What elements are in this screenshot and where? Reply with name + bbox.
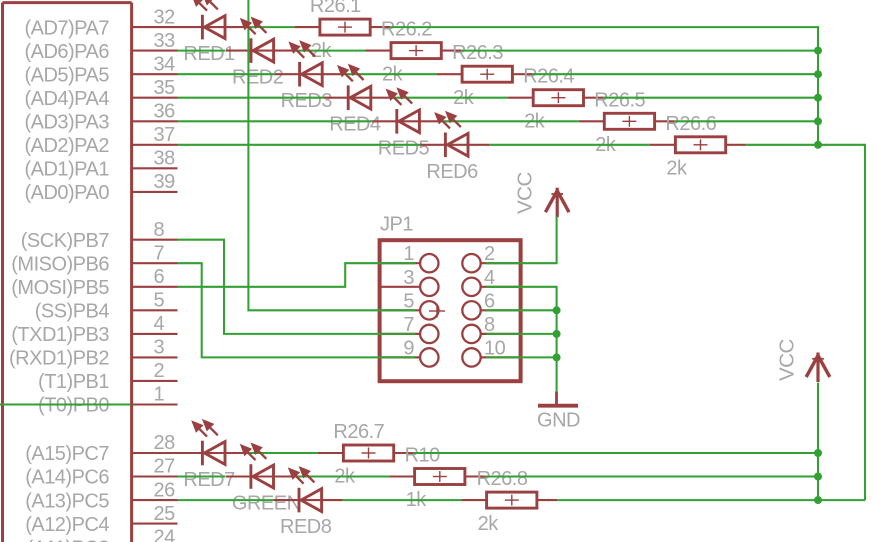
svg-text:RED1: RED1 <box>183 43 235 65</box>
wire <box>178 499 275 501</box>
svg-text:R26.3: R26.3 <box>452 42 503 64</box>
wire <box>486 356 556 358</box>
svg-text:37: 37 <box>154 124 176 146</box>
svg-text:RED4: RED4 <box>329 114 381 136</box>
svg-text:RED2: RED2 <box>232 67 284 89</box>
resistor R26.4 2k <box>508 66 604 133</box>
wire <box>178 263 416 357</box>
JP1 pin 8 <box>462 314 518 343</box>
wire <box>178 263 416 287</box>
pin 28 (A15)PC7 <box>25 432 177 465</box>
junction <box>814 117 822 125</box>
svg-text:(AD3)PA3: (AD3)PA3 <box>24 112 109 134</box>
junction <box>553 330 561 338</box>
svg-text:(AD6)PA6: (AD6)PA6 <box>24 41 109 63</box>
LED GREEN (body) <box>226 464 301 514</box>
svg-text:2: 2 <box>484 243 495 265</box>
pin 33 (AD6)PA6 <box>24 30 177 63</box>
svg-text:28: 28 <box>154 432 176 454</box>
wire <box>178 144 421 146</box>
svg-text:3: 3 <box>154 337 165 359</box>
svg-text:(AD7)PA7: (AD7)PA7 <box>24 17 109 39</box>
wire <box>486 216 556 263</box>
pin 3 (RXD1)PB2 <box>9 337 177 370</box>
pin 6 (MOSI)PB5 <box>11 266 177 299</box>
svg-text:8: 8 <box>154 219 165 241</box>
wire <box>533 73 819 75</box>
svg-text:RED8: RED8 <box>280 516 332 538</box>
connector JP1 <box>380 214 521 382</box>
wire <box>817 383 819 501</box>
resistor R10 1k <box>389 445 485 512</box>
wire <box>557 499 865 501</box>
svg-text:GREEN: GREEN <box>232 493 301 515</box>
wire <box>343 499 462 501</box>
svg-text:R26.2: R26.2 <box>381 19 432 41</box>
LED RED7 emission arrows <box>193 420 218 436</box>
ground symbol GND <box>537 391 580 431</box>
junction <box>814 449 822 457</box>
svg-text:(TXD1)PB3: (TXD1)PB3 <box>11 324 109 346</box>
svg-text:RED6: RED6 <box>426 161 478 183</box>
LED RED6 (body) <box>420 133 489 183</box>
svg-text:(A13)PC5: (A13)PC5 <box>25 490 109 512</box>
svg-text:R26.1: R26.1 <box>310 0 361 17</box>
pin 36 (AD3)PA3 <box>24 101 177 134</box>
junction <box>814 70 822 78</box>
svg-text:39: 39 <box>154 171 176 193</box>
svg-text:33: 33 <box>154 30 176 52</box>
junction <box>553 353 561 361</box>
wire <box>392 97 508 99</box>
svg-text:R26.4: R26.4 <box>523 66 574 88</box>
LED RED5 (body) <box>372 109 441 159</box>
svg-text:(A14)PC6: (A14)PC6 <box>25 467 109 489</box>
power symbol VCC (middle) <box>513 172 569 218</box>
svg-text:VCC: VCC <box>776 339 799 381</box>
wire <box>486 333 556 335</box>
svg-text:1: 1 <box>403 243 414 265</box>
junction <box>814 141 822 149</box>
wire <box>675 120 818 122</box>
LED RED2 (body) <box>226 38 295 88</box>
LED RED8 (body) <box>274 488 343 538</box>
wire <box>486 309 556 311</box>
wire <box>248 0 415 310</box>
wire <box>246 26 294 28</box>
IC IC1 (partial body) <box>3 3 132 542</box>
svg-text:26: 26 <box>154 479 176 501</box>
wire <box>489 144 650 146</box>
JP1 pin 7 <box>382 314 439 343</box>
svg-text:2k: 2k <box>666 158 688 180</box>
wire <box>178 120 372 122</box>
svg-text:4: 4 <box>484 267 495 289</box>
pin 8 (SCK)PB7 <box>21 219 178 252</box>
LED RED6 emission arrows <box>436 112 461 128</box>
LED RED3 (body) <box>275 62 344 112</box>
svg-text:6: 6 <box>154 266 165 288</box>
svg-text:R26.7: R26.7 <box>333 421 384 443</box>
JP1 pin 4 <box>462 267 518 296</box>
LED RED3 emission arrows <box>290 42 315 58</box>
svg-text:4: 4 <box>154 313 165 335</box>
svg-text:GND: GND <box>537 410 580 432</box>
wire <box>178 73 275 75</box>
svg-text:JP1: JP1 <box>380 214 413 236</box>
svg-text:(AD4)PA4: (AD4)PA4 <box>24 88 109 110</box>
svg-text:1: 1 <box>154 384 165 406</box>
JP1 pin 5 <box>382 290 439 319</box>
svg-text:RED7: RED7 <box>183 469 235 491</box>
LED RED8 emission arrows <box>289 468 314 484</box>
junction <box>814 47 822 55</box>
svg-text:(MISO)PB6: (MISO)PB6 <box>11 253 109 275</box>
LED RED4 (body) <box>323 85 392 135</box>
junction <box>553 306 561 314</box>
svg-text:36: 36 <box>154 101 176 123</box>
pin 5 (SS)PB4 <box>35 290 178 323</box>
svg-text:35: 35 <box>154 77 176 99</box>
svg-text:32: 32 <box>154 6 176 28</box>
LED RED5 emission arrows <box>387 89 412 105</box>
LED RED1 (body) <box>177 15 246 65</box>
wire <box>178 50 226 52</box>
svg-text:R26.6: R26.6 <box>665 113 716 135</box>
svg-text:(AD5)PA5: (AD5)PA5 <box>24 64 109 86</box>
wire <box>178 475 226 477</box>
svg-text:7: 7 <box>403 314 414 336</box>
wire <box>818 145 865 500</box>
pin 35 (AD4)PA4 <box>24 77 177 110</box>
svg-text:5: 5 <box>154 290 165 312</box>
svg-text:(A11)PC3: (A11)PC3 <box>27 537 110 542</box>
pin 34 (AD5)PA5 <box>24 53 177 86</box>
svg-text:25: 25 <box>154 503 176 525</box>
svg-text:27: 27 <box>154 456 176 478</box>
wire <box>343 73 436 75</box>
JP1 pin 9 <box>382 337 439 366</box>
LED RED2 emission arrows <box>241 18 266 34</box>
svg-text:38: 38 <box>154 148 176 170</box>
wire <box>485 475 818 477</box>
pin 37 (AD2)PA2 <box>24 124 177 157</box>
wire <box>295 475 390 477</box>
resistor R26.1 2k <box>294 0 390 62</box>
wire <box>604 97 818 99</box>
pin 32 (AD7)PA7 <box>24 6 177 39</box>
pin 38 (AD1)PA1 <box>24 148 177 181</box>
svg-text:(AD2)PA2: (AD2)PA2 <box>24 135 109 157</box>
pin 39 (AD0)PA0 <box>24 171 177 204</box>
JP1 pin 10 <box>462 337 518 366</box>
pin 24 (A11)PC3 <box>27 526 175 542</box>
LED RED7 (body) <box>177 441 246 491</box>
pin 4 (TXD1)PB3 <box>11 313 177 346</box>
resistor R26.3 2k <box>437 42 533 109</box>
svg-text:24: 24 <box>154 526 176 542</box>
wire <box>440 120 578 122</box>
svg-text:RED3: RED3 <box>281 90 333 112</box>
svg-text:(MOSI)PB5: (MOSI)PB5 <box>11 277 109 299</box>
svg-text:2: 2 <box>154 360 165 382</box>
svg-text:R26.5: R26.5 <box>594 89 645 111</box>
resistor R26.8 2k <box>461 468 557 535</box>
svg-text:R26.8: R26.8 <box>477 468 528 490</box>
pin 7 (MISO)PB6 <box>11 242 177 275</box>
svg-text:9: 9 <box>403 337 414 359</box>
LED RED1 emission arrows <box>193 0 218 11</box>
pin 2 (T1)PB1 <box>38 360 177 393</box>
resistor R26.5 2k <box>579 89 675 156</box>
wire <box>390 27 818 145</box>
resistor R26.6 2k <box>650 113 746 180</box>
junction <box>814 94 822 102</box>
JP1 pin 6 <box>462 290 518 319</box>
JP1 origin cross <box>429 305 445 318</box>
wire <box>746 144 818 146</box>
svg-text:5: 5 <box>403 290 414 312</box>
pin 27 (A14)PC6 <box>25 456 177 489</box>
wire <box>246 452 318 454</box>
svg-text:2k: 2k <box>478 513 500 535</box>
wire <box>295 50 366 52</box>
svg-text:6: 6 <box>484 290 495 312</box>
svg-text:(AD0)PA0: (AD0)PA0 <box>24 182 109 204</box>
JP1 pin 1 <box>382 243 439 272</box>
resistor R26.2 2k <box>366 19 462 86</box>
svg-text:VCC: VCC <box>513 172 536 214</box>
power symbol VCC (right) <box>776 339 830 382</box>
wire <box>486 287 556 392</box>
wire <box>178 240 416 334</box>
JP1 pin 2 <box>462 243 518 272</box>
svg-text:(T0)PB0: (T0)PB0 <box>38 395 109 417</box>
svg-text:(A12)PC4: (A12)PC4 <box>25 514 109 536</box>
wire <box>414 452 818 454</box>
svg-text:(SS)PB4: (SS)PB4 <box>35 301 110 323</box>
svg-text:10: 10 <box>484 337 506 359</box>
svg-text:8: 8 <box>484 314 495 336</box>
junction <box>814 496 822 504</box>
svg-text:(SCK)PB7: (SCK)PB7 <box>21 230 110 252</box>
wire <box>0 403 131 405</box>
svg-text:(AD1)PA1: (AD1)PA1 <box>24 159 109 181</box>
svg-text:3: 3 <box>403 267 414 289</box>
svg-text:(T1)PB1: (T1)PB1 <box>38 371 109 393</box>
pin 26 (A13)PC5 <box>25 479 177 512</box>
LED GREEN emission arrows <box>241 444 266 460</box>
wire <box>461 50 818 52</box>
svg-text:(RXD1)PB2: (RXD1)PB2 <box>9 348 109 370</box>
JP1 pin 3 <box>382 267 439 296</box>
LED RED4 emission arrows <box>338 65 363 81</box>
pin 1 (T0)PB0 <box>38 384 177 417</box>
svg-text:R10: R10 <box>405 445 441 467</box>
resistor R26.7 2k <box>318 421 414 488</box>
pin 25 (A12)PC4 <box>25 503 177 536</box>
wire <box>178 97 324 99</box>
svg-text:34: 34 <box>154 53 176 75</box>
svg-text:(A15)PC7: (A15)PC7 <box>25 443 109 465</box>
junction <box>814 473 822 481</box>
svg-text:RED5: RED5 <box>378 137 430 159</box>
svg-text:7: 7 <box>154 242 165 264</box>
